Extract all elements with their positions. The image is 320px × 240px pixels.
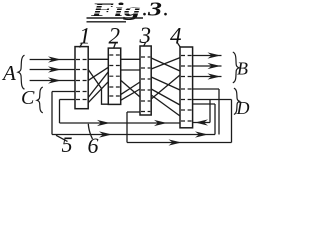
C vertical outer [51, 92, 53, 135]
D stub y89 [193, 88, 219, 90]
D vertical x219 [218, 89, 220, 135]
arrow rail134 b [195, 131, 208, 137]
brace B [233, 52, 239, 83]
box3 loop vertical [126, 112, 128, 143]
C vertical inner [59, 100, 61, 124]
box 4 [180, 47, 193, 128]
svg-text:6: 6 [88, 133, 99, 158]
leader 5 [56, 135, 68, 141]
arrow rail134 a [99, 131, 112, 137]
wire B2-B3 cross c [121, 89, 140, 100]
input wire A3 [30, 80, 75, 82]
wire B1-B2 cross a [88, 67, 108, 80]
leader 4 [178, 43, 181, 48]
leader 1 [80, 43, 83, 48]
svg-text:.: . [164, 1, 168, 20]
svg-text:A: A [1, 61, 16, 85]
wire B2-B3 straight b [121, 69, 140, 71]
svg-text:C: C [21, 87, 35, 109]
box 1 [75, 47, 88, 109]
arrow B3 [208, 73, 221, 79]
svg-text:.: . [143, 1, 147, 20]
wire B2-B3 cross b [121, 82, 140, 95]
box 1 dashed rows [76, 60, 88, 100]
D stub y99.5 [193, 99, 232, 101]
arrow B1 [208, 52, 221, 58]
arrow rail142 [169, 139, 182, 145]
svg-text:5: 5 [62, 132, 73, 157]
input wire A1 [30, 59, 75, 61]
title underline 1 [87, 17, 144, 19]
title hatching [90, 6, 142, 14]
input wire A2 [30, 69, 75, 71]
wire B3-B4 cross a [151, 58, 180, 71]
arrow re-entry left [195, 119, 208, 125]
re-entry wire y122.5 [193, 122, 210, 124]
leader 2 [114, 43, 116, 49]
leader 6 [88, 124, 92, 139]
brace A [18, 55, 25, 89]
rail bottom y142.5 [127, 142, 232, 144]
box3 stub [127, 111, 140, 113]
brace D [234, 88, 240, 114]
rail low y134.5 [52, 134, 215, 136]
arrow rail123 b [154, 120, 167, 126]
wire B3-B4 cross c [151, 77, 180, 90]
arrow A3 [48, 77, 61, 83]
arrow A1 [48, 56, 61, 62]
loop vertical x210 [209, 100, 211, 123]
wire B1-B2 cross c [88, 82, 108, 103]
svg-text:D: D [236, 98, 250, 118]
wire B3-B4 cross d [151, 89, 180, 105]
box 3 dashed rows [141, 57, 150, 112]
C stub upper [52, 91, 75, 93]
brace C [37, 87, 43, 113]
wire B3-B4 cross e [151, 75, 180, 99]
wire B3-B4 cross b [151, 58, 180, 69]
D stub y104 [193, 103, 215, 105]
wire B2-B3 cross a [121, 80, 140, 97]
box 3 [140, 46, 151, 115]
leader 3 [144, 43, 146, 47]
D vertical x231.5 [231, 100, 233, 143]
rail mid y123 [60, 122, 181, 124]
wire B2-B3 straight a [121, 58, 140, 60]
title underline 2 [87, 21, 127, 23]
box 4 dashed rows [181, 56, 192, 122]
D vertical x215 [214, 104, 216, 135]
svg-text:4: 4 [170, 24, 182, 49]
arrow B2 [208, 63, 221, 69]
output wire B2 [193, 65, 222, 67]
output wire B1 [193, 55, 222, 57]
wire B1-B2 straight [88, 58, 108, 60]
wire B1-B2 cross b [88, 72, 108, 98]
wire B3-B4 cross f [151, 95, 180, 116]
output wire B3 [193, 76, 222, 78]
arrow rail123 a [97, 120, 110, 126]
box 2 [108, 48, 120, 104]
wire B1-B2 bend down [88, 70, 108, 105]
box 2 dashed rows [109, 55, 120, 96]
arrow A2 [48, 66, 61, 72]
svg-text:3: 3 [147, 0, 162, 21]
title Fig.3. [89, 0, 168, 21]
C stub lower [60, 99, 76, 101]
